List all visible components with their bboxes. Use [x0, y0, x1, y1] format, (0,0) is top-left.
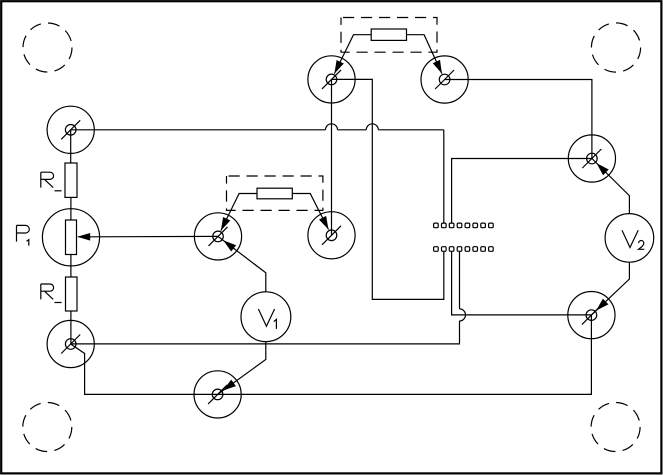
mounting hole top-left [23, 23, 72, 72]
wire T4 to V1 top [218, 236, 266, 292]
jumper middle right lead [292, 194, 328, 230]
terminal T7 (bottom middle post) [194, 371, 241, 418]
terminal T5 (middle right post) [308, 212, 355, 259]
wire T3 down to R1 [70, 130, 72, 163]
label R2 [41, 284, 62, 303]
wire coil top el3 up to T8 [452, 159, 592, 223]
jumper resistor middle [257, 188, 292, 199]
jumper middle left lead [221, 194, 257, 231]
terminal T1 (top left post) [308, 56, 355, 103]
jumper box top (dashed) [341, 18, 437, 53]
wire V1 bottom to T7 [218, 342, 266, 395]
wire V2 bottom to T9 [591, 262, 629, 315]
jumper top left lead [334, 35, 371, 74]
mounting hole top-right [591, 23, 640, 72]
wire coil bottom el3 down to T9 [452, 252, 592, 315]
wire T3 to coil top via y=130 (segments broken at hops) [71, 130, 444, 223]
wire T8 to V2 top [592, 159, 630, 214]
mounting hole bottom-left [23, 403, 72, 452]
voltmeter V1 [241, 292, 291, 342]
arrow into T8 [597, 163, 609, 175]
mounting hole bottom-right [591, 403, 640, 452]
jumper box middle (dashed) [227, 176, 323, 210]
terminal T9 (right lower post) [568, 292, 615, 339]
arrow into T7 [223, 380, 236, 391]
terminal T4 (middle left post) [194, 213, 241, 260]
wire T2 right then down to T8 [445, 80, 592, 159]
arrow into T4 from jumper [221, 217, 230, 231]
P1 wiper arrow [77, 233, 90, 241]
potentiometer P1 [42, 209, 99, 266]
wire hop over x=372.3 [366, 124, 378, 130]
wire hop over x=331.5 [326, 124, 338, 130]
jumper top right lead [407, 35, 442, 74]
wire P1 body to R2 [70, 255, 72, 278]
transformer secondary winding (bottom row) [434, 247, 494, 252]
arrow into T4 from V1 [223, 240, 236, 251]
arrow into T9 [596, 299, 608, 311]
jumper resistor top [371, 29, 406, 40]
wire coil bottom el4 down (hop) then left to T6 [71, 252, 460, 344]
resistor R2 [66, 277, 78, 311]
arrow into T5 [319, 216, 329, 230]
label R1 [41, 172, 62, 191]
wire T6 diagonal down, bottom bus to T9 [71, 315, 592, 394]
label P1 [17, 225, 30, 245]
wire T1 down to T5 [331, 79, 333, 235]
resistor R1 [65, 163, 77, 197]
wire T1 right, down x=372.3, to coil bottom el2 [332, 79, 444, 299]
arrow into T2 [433, 60, 442, 74]
wire hop over y=314.9 [460, 309, 466, 321]
voltmeter V2 [605, 214, 654, 263]
terminal T2 (top right post) [421, 56, 468, 103]
terminal T3 (left upper post) [47, 106, 94, 153]
wire wiper line T4 to P1 [78, 235, 218, 237]
wire R2 to T6 [70, 311, 72, 344]
arrow into T1 [334, 60, 343, 74]
terminal T8 (right upper post) [568, 135, 615, 182]
terminal T6 (left lower post) [47, 320, 94, 367]
transformer primary winding (top row) [434, 223, 494, 228]
wire R1 to P1 body [70, 197, 72, 220]
